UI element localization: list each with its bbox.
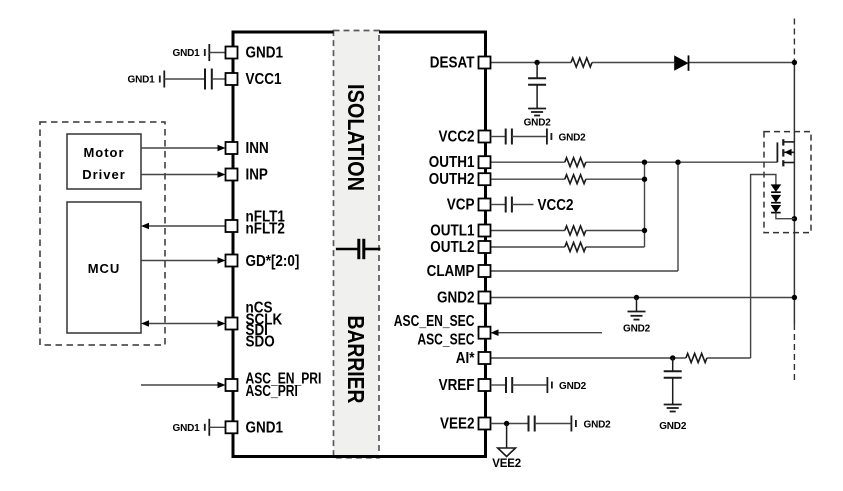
svg-text:GND1: GND1 xyxy=(128,75,156,86)
capacitor C7 (VEE2) xyxy=(529,416,571,432)
pin GD xyxy=(226,255,238,267)
wire vertical bus joining OUTH1/OUTH2/OUTL1/OUTL2 xyxy=(644,162,646,247)
svg-text:nFLT2: nFLT2 xyxy=(246,221,285,238)
wire INP with arrow xyxy=(141,171,226,178)
wire DESAT xyxy=(491,62,795,64)
svg-text:GND1: GND1 xyxy=(173,423,201,434)
node GND2/bus junction xyxy=(792,295,797,300)
wire ASC_PRI with arrow xyxy=(141,382,226,389)
pin VCC2 xyxy=(479,131,491,143)
svg-text:AI*: AI* xyxy=(456,350,476,367)
pin SPI xyxy=(226,318,238,330)
svg-text:ASC_EN_SEC: ASC_EN_SEC xyxy=(394,313,475,330)
wire ASC_SEC with arrow xyxy=(491,329,603,336)
transistor Q1 (SiC MOSFET) xyxy=(777,139,794,166)
node DESAT/bus junction xyxy=(792,60,797,65)
pin VREF xyxy=(479,379,491,391)
capacitor C3 (VCC2 bypass) xyxy=(491,129,546,145)
svg-text:ASC_PRI: ASC_PRI xyxy=(246,383,298,400)
wire OUTL2 xyxy=(491,246,645,248)
svg-text:OUTH2: OUTH2 xyxy=(429,171,475,188)
resistor R6 (AI*) xyxy=(686,354,707,363)
ground GND2 (mid) xyxy=(628,298,646,320)
primary-side dashed enclosure xyxy=(40,122,165,345)
wire bus dashed (bottom) xyxy=(793,324,795,380)
svg-text:CLAMP: CLAMP xyxy=(427,263,475,280)
pin ASC_SEC xyxy=(479,327,491,339)
wire gate-sense lead xyxy=(751,175,776,359)
svg-text:SDO: SDO xyxy=(246,333,275,350)
ground net tag GND2 (VREF row) xyxy=(547,377,552,393)
wire CLAMP xyxy=(491,270,679,272)
capacitor C4 (VCP) xyxy=(491,197,534,213)
ground GND2 (AI* cap) xyxy=(664,405,682,412)
wire VEE2 xyxy=(491,423,529,425)
svg-text:GND2: GND2 xyxy=(659,421,687,432)
node junctions on x=644.5 xyxy=(642,160,647,165)
pin ASC_PRI xyxy=(226,379,238,391)
svg-text:ASC_SEC: ASC_SEC xyxy=(417,332,474,349)
resistor R3 (OUTH2 gate) xyxy=(565,175,586,184)
node GND2 ground tap xyxy=(634,295,639,300)
pin VEE2 xyxy=(479,418,491,430)
wire drain-source bus solid xyxy=(793,60,795,325)
svg-text:VCC2: VCC2 xyxy=(538,197,574,214)
svg-text:VREF: VREF xyxy=(439,377,475,394)
pin OUTL2 xyxy=(479,241,491,253)
resistor R4 (OUTL1 gate) xyxy=(565,226,586,235)
resistor R2 (OUTH1 gate) xyxy=(565,158,586,167)
svg-text:VCP: VCP xyxy=(447,197,475,214)
ground net tag GND2 (VEE2 row) xyxy=(571,416,576,432)
wire CLAMP riser xyxy=(677,162,679,271)
capacitor C6 (VREF) xyxy=(491,377,547,393)
svg-text:VCC2: VCC2 xyxy=(439,129,475,146)
wire OUTH1 to gate xyxy=(491,161,778,163)
pin VCP xyxy=(479,199,491,211)
wire VCC1 decoupling xyxy=(164,78,205,80)
svg-text:GND1: GND1 xyxy=(173,48,201,59)
svg-text:INN: INN xyxy=(246,140,269,157)
wire nFLT with arrow to MCU xyxy=(141,223,226,230)
pin GND2 xyxy=(479,292,491,304)
Motor Driver block xyxy=(67,134,141,189)
capacitor C2 (DESAT blanking) xyxy=(528,63,546,109)
node AI*/C junction xyxy=(670,355,675,360)
isolation barrier band xyxy=(334,31,380,458)
pin INP xyxy=(226,169,238,181)
wire diode stack to source xyxy=(776,213,795,219)
svg-text:GND2: GND2 xyxy=(584,420,612,431)
svg-text:INP: INP xyxy=(246,167,268,184)
pin AI* xyxy=(479,352,491,364)
capacitor C5 (AI* filter) xyxy=(664,358,682,405)
pin INN xyxy=(226,142,238,154)
ground GND2 (DESAT cap) xyxy=(528,109,546,116)
node source/bus junction xyxy=(792,216,797,221)
svg-text:BARRIER: BARRIER xyxy=(343,316,369,404)
svg-text:GND1: GND1 xyxy=(246,419,284,436)
pin DESAT xyxy=(479,57,491,69)
pin VCC1 xyxy=(226,73,238,85)
svg-text:VEE2: VEE2 xyxy=(492,458,521,470)
svg-text:GND2: GND2 xyxy=(559,133,587,144)
wire OUTL1 xyxy=(491,230,645,232)
ground net tag GND1 (top row) xyxy=(205,44,226,61)
svg-text:Motor: Motor xyxy=(83,145,124,160)
pin OUTH2 xyxy=(479,173,491,185)
svg-text:GND2: GND2 xyxy=(623,324,651,335)
capacitor C1 (VCC1 bypass) xyxy=(205,69,226,90)
svg-text:Driver: Driver xyxy=(82,167,126,182)
wire OUTH2 xyxy=(491,178,645,180)
MCU block xyxy=(67,202,141,333)
node CLAMP riser junction xyxy=(675,160,680,165)
svg-text:DESAT: DESAT xyxy=(430,55,475,72)
wire AI* xyxy=(491,357,751,359)
svg-text:MCU: MCU xyxy=(88,261,121,276)
svg-text:OUTL1: OUTL1 xyxy=(430,223,475,240)
resistor R5 (OUTL2 gate) xyxy=(565,243,586,252)
svg-text:ISOLATION: ISOLATION xyxy=(343,84,369,191)
wire SPI bidirectional arrows xyxy=(141,320,226,327)
svg-text:GND1: GND1 xyxy=(246,45,284,62)
power module dashed box xyxy=(764,132,811,233)
diode D3 (gate clamp) xyxy=(771,195,781,202)
VEE2 supply symbol xyxy=(498,424,516,457)
svg-text:OUTL2: OUTL2 xyxy=(430,239,474,256)
svg-text:GND2: GND2 xyxy=(524,118,552,129)
svg-text:GND2: GND2 xyxy=(437,290,475,307)
gate driver IC U1 body xyxy=(233,32,486,457)
ground net tag GND1 (bottom row) xyxy=(205,419,226,436)
diode D2 (gate clamp) xyxy=(771,185,781,192)
diode D1 (DESAT blocking) xyxy=(674,55,688,70)
svg-text:GD*[2:0]: GD*[2:0] xyxy=(246,253,300,270)
node VEE2 tap xyxy=(504,421,509,426)
wire GND2 xyxy=(491,297,795,299)
ground net tag GND2 (VCC2 row) xyxy=(547,129,552,145)
svg-text:OUTH1: OUTH1 xyxy=(429,154,475,171)
pin GND1 (primary, top) xyxy=(226,47,238,59)
svg-text:GND2: GND2 xyxy=(559,381,587,392)
pin OUTL1 xyxy=(479,225,491,237)
resistor R1 (DESAT) xyxy=(571,58,592,67)
pin CLAMP xyxy=(479,265,491,277)
svg-text:VEE2: VEE2 xyxy=(440,416,475,433)
ground net tag GND1 (VCC1 row) xyxy=(160,71,165,88)
pin nFLT xyxy=(226,220,238,232)
isolation capacitor C-iso xyxy=(336,239,380,259)
wire INN with arrow xyxy=(141,145,226,152)
svg-text:VCC1: VCC1 xyxy=(246,71,282,88)
pin OUTH1 xyxy=(479,156,491,168)
pin GND1 (primary, bottom) xyxy=(226,421,238,433)
wire GD with arrow xyxy=(141,257,226,264)
diode D4 (gate clamp) xyxy=(771,205,781,212)
node: DESAT/C junction xyxy=(534,60,539,65)
wire drain bus dashed (top) xyxy=(793,19,795,60)
